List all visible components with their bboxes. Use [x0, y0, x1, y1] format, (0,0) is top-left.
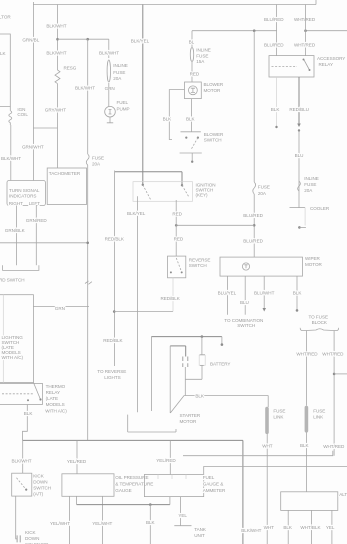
fuel gauge inner ticks — [158, 475, 186, 480]
wire wiper feed vertical — [253, 31, 255, 182]
svg-text:RIGHT: RIGHT — [9, 201, 23, 206]
svg-text:BLU: BLU — [240, 300, 249, 305]
wire ignition left leg — [114, 171, 116, 367]
svg-text:WHT: WHT — [262, 444, 273, 449]
wire cross horizontal y242.8 — [0, 242, 88, 244]
wire alt pin BLK — [287, 510, 289, 544]
svg-text:FUSE: FUSE — [273, 409, 285, 414]
svg-text:YEL: YEL — [326, 525, 335, 530]
thermo relay dashed line — [2, 393, 34, 395]
starter bottom riser right — [175, 429, 177, 432]
wire y30 right segment — [306, 30, 347, 32]
svg-text:GRN/BLK: GRN/BLK — [5, 228, 26, 233]
wire wiper pin BLU/WHT — [263, 276, 265, 308]
svg-text:OIL PRESSURE: OIL PRESSURE — [115, 475, 148, 480]
wire E vertical BLK/YEL — [142, 5, 144, 185]
svg-text:AMMETER: AMMETER — [203, 488, 226, 493]
wire wiper pin BLU — [244, 276, 246, 315]
wire alt pin WHT/BLK — [311, 510, 313, 544]
svg-text:BLU/YEL: BLU/YEL — [218, 290, 237, 295]
fuel pump circle — [105, 106, 116, 117]
wire oil gauge pin 1 — [69, 496, 71, 544]
node junction y311 — [113, 310, 116, 313]
wire GRN branch — [33, 305, 89, 307]
svg-text:LINK: LINK — [273, 415, 284, 420]
starter outer left edge — [150, 337, 152, 411]
battery bottom link — [185, 378, 202, 380]
svg-text:BLK/WHT: BLK/WHT — [241, 528, 261, 533]
svg-text:WIPER: WIPER — [305, 256, 321, 261]
wire oil gauge ground drop — [76, 496, 78, 504]
wire C below fuse — [87, 165, 89, 440]
svg-text:YEL/RED: YEL/RED — [67, 459, 87, 464]
starter bottom riser left — [127, 415, 129, 432]
wire ground corner to fuse link 1 — [267, 396, 269, 408]
tachometer box — [47, 168, 86, 205]
reverse switch blade — [176, 258, 181, 270]
ignition coil winding — [9, 107, 12, 126]
accessory relay feed wire BLU/RED — [276, 5, 278, 56]
fuse link 2 bar — [305, 408, 309, 431]
svg-text:RED/BLK: RED/BLK — [105, 237, 125, 242]
svg-text:RED: RED — [190, 72, 200, 77]
wire relay output RED/BLU — [298, 77, 300, 125]
battery negative top link — [170, 345, 186, 347]
wire y30 bus to accessory relay — [192, 30, 277, 32]
svg-text:15A: 15A — [196, 59, 205, 64]
svg-text:BLK/WHT: BLK/WHT — [12, 459, 32, 464]
svg-text:TANK: TANK — [194, 527, 207, 532]
svg-text:FUSE: FUSE — [313, 409, 325, 414]
wiper motor box — [220, 257, 303, 276]
wire A vertical GRN/BL — [32, 5, 34, 181]
svg-text:20A: 20A — [92, 162, 101, 167]
wire relay output BLK stub — [276, 77, 278, 127]
wiper pin arrow — [263, 308, 267, 312]
svg-text:FUEL: FUEL — [203, 475, 215, 480]
blower motor circle — [189, 86, 198, 95]
wire y455 link to alternator — [183, 451, 333, 456]
node ignition contact 1 — [142, 184, 144, 186]
svg-text:BLU/RED: BLU/RED — [243, 213, 263, 218]
wire ignition start output RED — [175, 200, 177, 256]
svg-text:GRN/WHT: GRN/WHT — [22, 144, 44, 149]
wire below fuse link 1 — [266, 434, 268, 544]
svg-text:WHT/BLK: WHT/BLK — [300, 525, 321, 530]
wire D vertical fuel pump feed — [108, 39, 110, 58]
resistor RESG on wire B — [55, 70, 60, 84]
svg-text:TURN SIGNAL: TURN SIGNAL — [9, 188, 40, 193]
svg-text:INLINE: INLINE — [304, 176, 319, 181]
svg-text:RELAY: RELAY — [46, 390, 60, 395]
node junction y504 — [149, 503, 152, 506]
kick down solenoid bars — [17, 535, 20, 542]
svg-text:BLU: BLU — [295, 153, 304, 158]
svg-text:TO FUSE: TO FUSE — [309, 315, 328, 320]
svg-text:INDICATORS: INDICATORS — [9, 194, 36, 199]
blower switch blade — [191, 138, 198, 150]
svg-text:TACHOMETER: TACHOMETER — [49, 171, 81, 176]
svg-text:LIGHTS: LIGHTS — [104, 375, 120, 380]
svg-text:YEL/WHT: YEL/WHT — [92, 521, 112, 526]
svg-text:20A: 20A — [113, 76, 122, 81]
node blower switch pin end — [191, 161, 193, 163]
svg-text:WHT/RED: WHT/RED — [296, 352, 318, 357]
svg-text:THERMO: THERMO — [46, 384, 66, 389]
svg-text:SWITCH: SWITCH — [204, 138, 222, 143]
svg-text:BLK/WHT: BLK/WHT — [1, 156, 21, 161]
svg-text:BLK: BLK — [271, 107, 281, 112]
svg-text:FUSE: FUSE — [304, 182, 316, 187]
svg-text:(KEY): (KEY) — [196, 193, 209, 198]
svg-text:WHT/RED: WHT/RED — [323, 444, 345, 449]
starter bottom edge — [128, 431, 176, 433]
svg-text:BLU/WHT: BLU/WHT — [254, 290, 275, 295]
wire joining A and B at y128 — [33, 127, 57, 129]
cooler connector faint drop — [304, 208, 306, 226]
wire F below fuse — [191, 62, 193, 82]
wire blower motor to switch — [191, 99, 193, 132]
cooler dot tick — [299, 226, 306, 228]
svg-text:BLOWER: BLOWER — [204, 82, 224, 87]
accessory relay coil dashed — [272, 66, 298, 68]
svg-text:GRN: GRN — [55, 306, 65, 311]
svg-text:RED: RED — [174, 237, 184, 242]
cooler connector bar — [290, 207, 306, 209]
svg-text:KICK: KICK — [33, 474, 45, 479]
node BLK stub end — [275, 126, 277, 128]
wire B vertical — [57, 5, 59, 71]
battery positive lead — [201, 337, 203, 355]
svg-text:GRY/WHT: GRY/WHT — [45, 108, 67, 113]
svg-text:FUSE: FUSE — [113, 70, 125, 75]
svg-text:SWITCH: SWITCH — [33, 486, 51, 491]
svg-text:BLK/YEL: BLK/YEL — [131, 39, 150, 44]
wire thermo relay output — [23, 405, 28, 441]
svg-text:WHT/RED: WHT/RED — [294, 43, 316, 48]
wire B continues to tachometer — [57, 128, 59, 168]
wire branch to right edge — [334, 373, 347, 375]
accessory relay blade — [304, 59, 310, 70]
svg-text:MODELS: MODELS — [46, 402, 65, 407]
node reverse contact right — [181, 271, 183, 273]
turn signal indicators box — [7, 181, 45, 206]
wire kick down feed — [22, 440, 24, 473]
wire horizontal bus y39 — [58, 38, 109, 40]
node kick blade dot — [25, 489, 27, 491]
wire ground link y504 — [77, 504, 170, 506]
svg-text:(LATE: (LATE — [46, 396, 58, 401]
svg-text:BLK: BLK — [195, 393, 205, 398]
svg-text:GAUGE &: GAUGE & — [203, 482, 224, 487]
wire YEL/RED oil gauge feed — [76, 440, 78, 473]
svg-text:DOWN: DOWN — [25, 536, 39, 541]
node junction wire C on y39 bus — [86, 38, 89, 41]
node junction wiper feed on y30 bus — [253, 29, 256, 32]
svg-text:BLK: BLK — [293, 290, 303, 295]
wire B below resistor to y128 — [57, 84, 59, 128]
wire fuel gauge feed — [169, 440, 171, 474]
ignition switch faint body — [133, 182, 193, 202]
fuel gauge box — [144, 475, 203, 497]
svg-text:YEL/WHT: YEL/WHT — [50, 521, 70, 526]
wire kick switch to solenoid — [16, 496, 17, 539]
svg-text:BLK: BLK — [283, 525, 293, 530]
svg-text:BL: BL — [189, 40, 195, 45]
ignition switch main line — [115, 171, 182, 173]
fuse INLINE FUSE 20A on cooler wire — [298, 181, 301, 191]
fuel pump ground stub — [107, 117, 113, 123]
oil gauge box — [62, 474, 114, 497]
svg-text:FUEL: FUEL — [117, 100, 129, 105]
fuse FUSE 20A on wire C — [86, 154, 89, 165]
ignition blade 2 — [182, 185, 189, 196]
svg-text:ALT: ALT — [339, 492, 347, 497]
node junction wire B / y39 bus — [56, 38, 59, 41]
svg-text:WITH A/C): WITH A/C) — [2, 355, 24, 360]
fuse INLINE FUSE 20A on wire D — [107, 60, 110, 82]
svg-text:GRN/RED: GRN/RED — [26, 218, 48, 223]
left box (regulator) — [0, 34, 10, 107]
node wiper BLK end — [296, 309, 299, 312]
wire alt pin YEL — [331, 510, 333, 544]
battery top feed line — [151, 336, 222, 338]
blower switch bottom pin — [191, 153, 193, 162]
svg-text:BLK: BLK — [163, 116, 173, 121]
svg-text:BLU/RED: BLU/RED — [264, 17, 284, 22]
wire top bus right hook — [315, 0, 317, 5]
node junction y242.8 at wire C — [86, 242, 89, 245]
wire GRN/BLK below turn box — [16, 206, 18, 266]
wire bridge y225 — [176, 224, 254, 226]
node battery positive junction — [201, 335, 204, 338]
hazard switch connector bracket — [3, 265, 39, 270]
svg-text:RELAY: RELAY — [319, 62, 333, 67]
battery negative lead — [185, 346, 187, 357]
wire battery right stub — [221, 337, 223, 345]
blower switch bar 1 — [181, 131, 201, 133]
wiper motor inner marks — [244, 265, 247, 268]
svg-text:20A: 20A — [304, 188, 313, 193]
wire wiper pin BLU/YEL — [227, 276, 229, 315]
blower motor inner marks — [191, 88, 195, 92]
svg-text:MOTOR: MOTOR — [180, 419, 197, 424]
connector arrow on RED/BLU wire — [297, 124, 301, 128]
wire F blower feed — [191, 31, 193, 47]
svg-text:BATTERY: BATTERY — [210, 362, 230, 367]
wire fuel gauge sender pin — [179, 497, 181, 526]
svg-text:GRN/BL: GRN/BL — [22, 38, 39, 43]
wire ground link riser — [169, 497, 171, 505]
svg-text:20A: 20A — [258, 191, 267, 196]
wire wiper pin BLK — [296, 276, 298, 310]
reverse switch box — [168, 256, 186, 278]
wire wiper feed below fuse — [253, 194, 255, 257]
node junction y225 bridge left — [175, 224, 178, 227]
svg-text:YEL: YEL — [178, 513, 187, 518]
svg-text:UNIT: UNIT — [194, 533, 205, 538]
wire top bus horizontal — [33, 4, 316, 6]
svg-text:RED: RED — [172, 212, 182, 217]
svg-text:MOTOR: MOTOR — [204, 88, 221, 93]
svg-text:COIL: COIL — [17, 112, 28, 117]
node battery right stub end — [221, 343, 224, 346]
svg-text:DOWN: DOWN — [33, 480, 47, 485]
main bus y440 — [23, 439, 243, 441]
battery negative bottom lead — [184, 367, 186, 396]
fuse INLINE FUSE 15A on wire F — [190, 48, 193, 62]
svg-text:SWITCH: SWITCH — [189, 263, 207, 268]
wire bus right corner drop — [242, 440, 244, 544]
svg-text:WHT/RED: WHT/RED — [294, 17, 316, 22]
wire BLK dropper — [149, 505, 151, 544]
wire BLK battery ground — [184, 395, 268, 397]
svg-text:GAUGE: GAUGE — [115, 488, 131, 493]
big switch box left — [0, 295, 33, 383]
svg-text:LINK: LINK — [313, 415, 324, 420]
svg-text:FUSE: FUSE — [196, 53, 208, 58]
svg-text:YEL/RED: YEL/RED — [156, 458, 176, 463]
fuse FUSE 20A on wiper feed — [253, 182, 256, 194]
svg-text:PUMP: PUMP — [117, 107, 130, 112]
wire D below fuse — [108, 83, 110, 106]
svg-text:BLK/WHT: BLK/WHT — [46, 24, 66, 29]
wire below fuse link 2 — [305, 432, 307, 491]
node thermo contact dot — [27, 399, 29, 401]
node junction y373.9 — [333, 373, 336, 376]
wire ignition acc output — [136, 196, 138, 412]
wire ign coil to turn signal box — [10, 125, 12, 181]
starter inner left edge — [169, 346, 171, 413]
svg-text:RED/BLK: RED/BLK — [161, 296, 181, 301]
battery negative plates — [183, 357, 188, 368]
wire top bus hook — [32, 2, 34, 5]
wiper motor circle — [242, 263, 249, 270]
fuse link 1 bar — [265, 409, 269, 433]
svg-text:BLK/WHT: BLK/WHT — [99, 50, 119, 55]
svg-text:LTOR: LTOR — [0, 14, 11, 19]
connector chevrons on wire C — [85, 281, 92, 284]
svg-text:WHT/RED: WHT/RED — [322, 352, 344, 357]
node connector dot — [298, 129, 300, 131]
svg-text:MOTOR: MOTOR — [305, 262, 322, 267]
blower switch contact dots — [185, 137, 187, 139]
svg-text:BLOWER: BLOWER — [204, 132, 224, 137]
thermo relay box — [0, 383, 42, 404]
wire cooler feed — [298, 131, 300, 208]
kick down switch blade — [17, 478, 26, 489]
ignition switch corner drop — [181, 172, 183, 186]
starter blade diagonal — [170, 396, 184, 414]
svg-text:BLK: BLK — [186, 116, 196, 121]
svg-text:FUSE: FUSE — [258, 185, 270, 190]
svg-text:INLINE: INLINE — [113, 63, 128, 68]
svg-text:BLK: BLK — [300, 443, 310, 448]
svg-text:BLU/RED: BLU/RED — [243, 239, 263, 244]
svg-text:RESG: RESG — [64, 66, 77, 71]
svg-text:WITH A/C): WITH A/C) — [45, 409, 67, 414]
fuel pump inner mark — [109, 110, 112, 115]
wire y311 branch — [114, 311, 173, 313]
svg-text:BLK/YEL: BLK/YEL — [127, 211, 146, 216]
blower switch bar 2 — [180, 152, 202, 154]
svg-text:BLK/WHT: BLK/WHT — [75, 86, 95, 91]
accessory relay feed wire WHT/RED — [305, 5, 307, 56]
alternator box — [281, 492, 338, 511]
battery cell bottom bar — [200, 365, 204, 367]
svg-text:BLOCK: BLOCK — [312, 320, 328, 325]
svg-text:INLINE: INLINE — [196, 48, 211, 53]
ignition blade 1 — [143, 185, 151, 201]
svg-text:COOLER: COOLER — [310, 206, 330, 211]
svg-text:RED/BLK: RED/BLK — [103, 338, 123, 343]
tank unit bar — [174, 525, 191, 527]
node thermo blade dot — [39, 398, 41, 400]
accessory relay box — [269, 56, 314, 77]
wire C vertical BLK/WHT — [87, 39, 89, 154]
wire alternator charge WHT/RED — [333, 331, 335, 456]
battery positive plate — [200, 354, 205, 356]
svg-text:RED/BLU: RED/BLU — [289, 107, 309, 112]
blower motor box — [185, 82, 202, 99]
svg-text:WHT: WHT — [264, 525, 275, 530]
svg-text:SWITCH: SWITCH — [237, 323, 255, 328]
node reverse contact left — [170, 271, 172, 273]
svg-text:BLK: BLK — [24, 411, 34, 416]
wire blower motor left branch BLK — [169, 90, 184, 140]
node ignition contact 2 — [181, 184, 183, 186]
big box inner faint edge — [2, 295, 4, 383]
svg-text:STARTER: STARTER — [180, 413, 201, 418]
svg-text:(A/T): (A/T) — [33, 492, 43, 497]
svg-text:LEFT: LEFT — [29, 201, 40, 206]
svg-text:FUSE: FUSE — [92, 156, 104, 161]
fuse block connector bracket — [300, 328, 338, 331]
wire fuse link 2 feed WHT/RED — [305, 331, 307, 406]
kick down switch box — [12, 473, 32, 496]
wire oil gauge pin 2 — [101, 496, 103, 544]
accessory relay contact dots — [303, 59, 305, 61]
svg-text:LK: LK — [0, 51, 7, 56]
svg-text:RD SWITCH: RD SWITCH — [0, 278, 25, 283]
wire GRN/RED below turn box — [35, 206, 37, 266]
svg-text:BLU/RED: BLU/RED — [264, 43, 284, 48]
node junction at 305 — [304, 29, 307, 32]
svg-text:KICK: KICK — [25, 530, 37, 535]
node junction y225 bridge right — [253, 224, 256, 227]
svg-text:& TEMPERATURE: & TEMPERATURE — [115, 482, 153, 487]
svg-text:BLK/WHT: BLK/WHT — [46, 51, 66, 56]
thermo relay blade diagonal — [33, 382, 40, 399]
svg-text:GRN: GRN — [105, 86, 115, 91]
wire reverse switch stub — [172, 278, 174, 312]
svg-text:ACCESSORY: ACCESSORY — [317, 56, 345, 61]
battery cell outline — [199, 355, 205, 365]
svg-text:REVERSE: REVERSE — [189, 258, 211, 263]
battery positive bottom lead — [201, 366, 203, 380]
wire y466 alternator bus — [204, 467, 347, 475]
svg-text:BLK: BLK — [146, 520, 156, 525]
node cooler dot with tick — [298, 226, 301, 229]
svg-text:TO REVERSE: TO REVERSE — [97, 369, 126, 374]
